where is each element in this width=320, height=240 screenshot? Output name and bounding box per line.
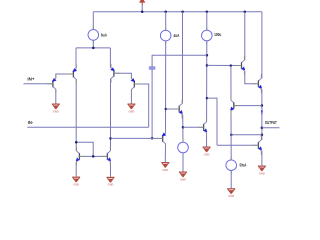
current source I3 100uA	[206, 27, 208, 44]
ground G7 under Q12	[203, 147, 211, 157]
current source I4 unlabeled	[182, 139, 184, 156]
node mirror base junction	[92, 155, 95, 158]
wire emitter tee rail	[76, 47, 110, 49]
wire Q5 collector to rail	[244, 12, 246, 60]
svg-text:OUTPUT: OUTPUT	[265, 120, 277, 125]
transistor Q12 NPN	[198, 118, 208, 137]
node Q11 base tap	[165, 108, 168, 111]
wire Q1 emitter to Q2 base	[56, 74, 74, 78]
current source I5 50uA	[230, 157, 232, 174]
wire mirror bases	[79, 155, 107, 157]
wire 50uA to ground	[230, 170, 232, 188]
wire Q11 collector to rail	[182, 12, 184, 104]
ground G1 under Q1	[52, 104, 60, 114]
wire Q4 collector to ground	[130, 89, 132, 103]
svg-text:100u: 100u	[214, 32, 221, 37]
label 4uA	[173, 33, 180, 38]
wire output tap	[262, 127, 280, 129]
wire Q13 collector	[230, 66, 232, 101]
svg-text:6uA: 6uA	[101, 32, 108, 37]
wire output column	[261, 89, 263, 140]
svg-text:4uA: 4uA	[173, 33, 180, 38]
label 50uA	[240, 163, 248, 168]
current source I1 6uA	[92, 27, 94, 44]
wire V+ rail	[93, 11, 262, 13]
transistor Q11 gain NPN	[173, 100, 183, 119]
ground G9 under 50uA	[227, 188, 235, 198]
transistor Q5 output NPN	[236, 56, 246, 75]
transistor Q1 input PNP	[47, 74, 57, 93]
svg-text:GND: GND	[162, 168, 169, 172]
node 50uA link left junction	[230, 134, 233, 137]
svg-text:GND: GND	[204, 152, 211, 156]
wire Q3 emitter drop	[109, 48, 111, 68]
transistor Q14 pulldown NPN	[252, 136, 262, 155]
svg-text:GND: GND	[259, 171, 266, 175]
wire Q8 emitter to ground	[75, 162, 77, 177]
ground G8 under Q14	[258, 166, 266, 176]
wire Q5 emitter to Q6 base	[245, 71, 259, 84]
wire Q9 emitter to ground	[110, 162, 112, 177]
svg-text:GND: GND	[180, 177, 187, 181]
wire Q2 emitter drop	[75, 48, 77, 69]
transistor Q10 PNP second stage	[157, 129, 167, 148]
wire 4uA column to Q10 emitter	[165, 41, 167, 133]
wire 6uA to emitter tee	[92, 40, 94, 48]
wire Q1 collector to ground	[55, 89, 57, 103]
power V+ symbol	[139, 0, 145, 12]
node V+ rail dots	[141, 11, 144, 14]
wire Q12 emitter to ground	[206, 133, 208, 147]
wire Q10 base	[111, 137, 163, 139]
wire Q3 collector to Q9 collector	[110, 79, 112, 151]
svg-text:GND: GND	[53, 109, 60, 113]
wire Q14 emitter to ground	[261, 151, 263, 166]
ground G5 under Q10	[162, 162, 170, 172]
wire I4 to ground	[182, 153, 184, 172]
ground G2 under Q4	[128, 104, 136, 114]
wire Q11 emitter column	[182, 115, 184, 143]
wire 4uA source stem	[165, 12, 167, 31]
wire Q6 collector to rail	[261, 12, 263, 79]
wire Q11 base	[166, 108, 179, 110]
wire 100uA column to Q12 collector	[206, 41, 208, 122]
wire Q13 emitter to 50uA source	[230, 111, 232, 159]
transistor Q13 sink NPN	[230, 96, 240, 115]
node Q5 base branch junction	[206, 64, 209, 67]
node mirror link junction	[75, 141, 78, 144]
transistor Q9 mirror NPN	[101, 147, 111, 166]
wire Q2 collector to Q8 collector	[75, 80, 77, 151]
svg-text:IN+: IN+	[27, 77, 35, 82]
node Q13 base junction on output	[261, 104, 264, 107]
transistor Q4 input PNP	[131, 75, 141, 94]
svg-text:GND: GND	[73, 182, 80, 186]
transistor Q8 mirror NPN	[76, 147, 86, 166]
node Q9 collector tap	[109, 137, 112, 140]
ground G6 under I4	[179, 172, 187, 182]
wire 6uA source stem from rail	[92, 12, 94, 30]
wire Q10 collector to ground	[164, 144, 166, 162]
node cap branch junction	[206, 54, 209, 57]
label IN+	[27, 77, 35, 82]
node Q13 collector junction	[230, 64, 233, 67]
svg-text:IN-: IN-	[28, 120, 34, 125]
svg-text:GND: GND	[108, 183, 115, 187]
ground G4 under Q9	[107, 177, 115, 187]
wire Q3 base to Q4 emitter	[114, 73, 131, 78]
wire 100uA source stem	[206, 12, 208, 31]
wire Q5 base from 100uA node	[207, 64, 242, 66]
node Q10 base junction	[151, 137, 154, 140]
wire mirror diode link	[76, 142, 93, 156]
node Q12 base tap	[182, 126, 185, 129]
wire cap to Q10 base node	[151, 70, 153, 139]
transistor Q3 input PNP	[110, 64, 120, 83]
wire Q14 base	[217, 144, 258, 146]
transistor Q2 input PNP	[67, 65, 77, 84]
wire Q13 base branch	[207, 98, 217, 145]
svg-text:GND: GND	[228, 194, 235, 198]
wire Q4 base to IN- riser	[134, 84, 148, 127]
svg-text:GND: GND	[129, 109, 136, 113]
wire IN- input	[27, 126, 148, 128]
label OUTPUT	[265, 120, 277, 125]
node Q13 base branch junction	[206, 97, 209, 100]
wire Q13 base from output column	[234, 105, 262, 107]
svg-text:50uA: 50uA	[240, 163, 248, 168]
emitter arrow mark on output column	[261, 110, 263, 115]
wire compensation cap branch	[152, 55, 207, 66]
node 50uA link junction	[261, 134, 264, 137]
node tee junction	[92, 47, 95, 50]
wire Q12 base	[183, 126, 204, 128]
wire IN+ input	[24, 83, 53, 85]
node output tap junction	[261, 127, 264, 130]
capacitor Cc	[149, 63, 156, 74]
ground G3 under Q8	[72, 177, 80, 187]
label IN-	[28, 120, 34, 125]
wire 50uA link W2	[231, 134, 262, 136]
label 6uA	[101, 32, 108, 37]
transistor Q6 output NPN	[252, 74, 262, 93]
current source I2 4uA	[165, 27, 167, 44]
label 100u	[214, 32, 221, 37]
